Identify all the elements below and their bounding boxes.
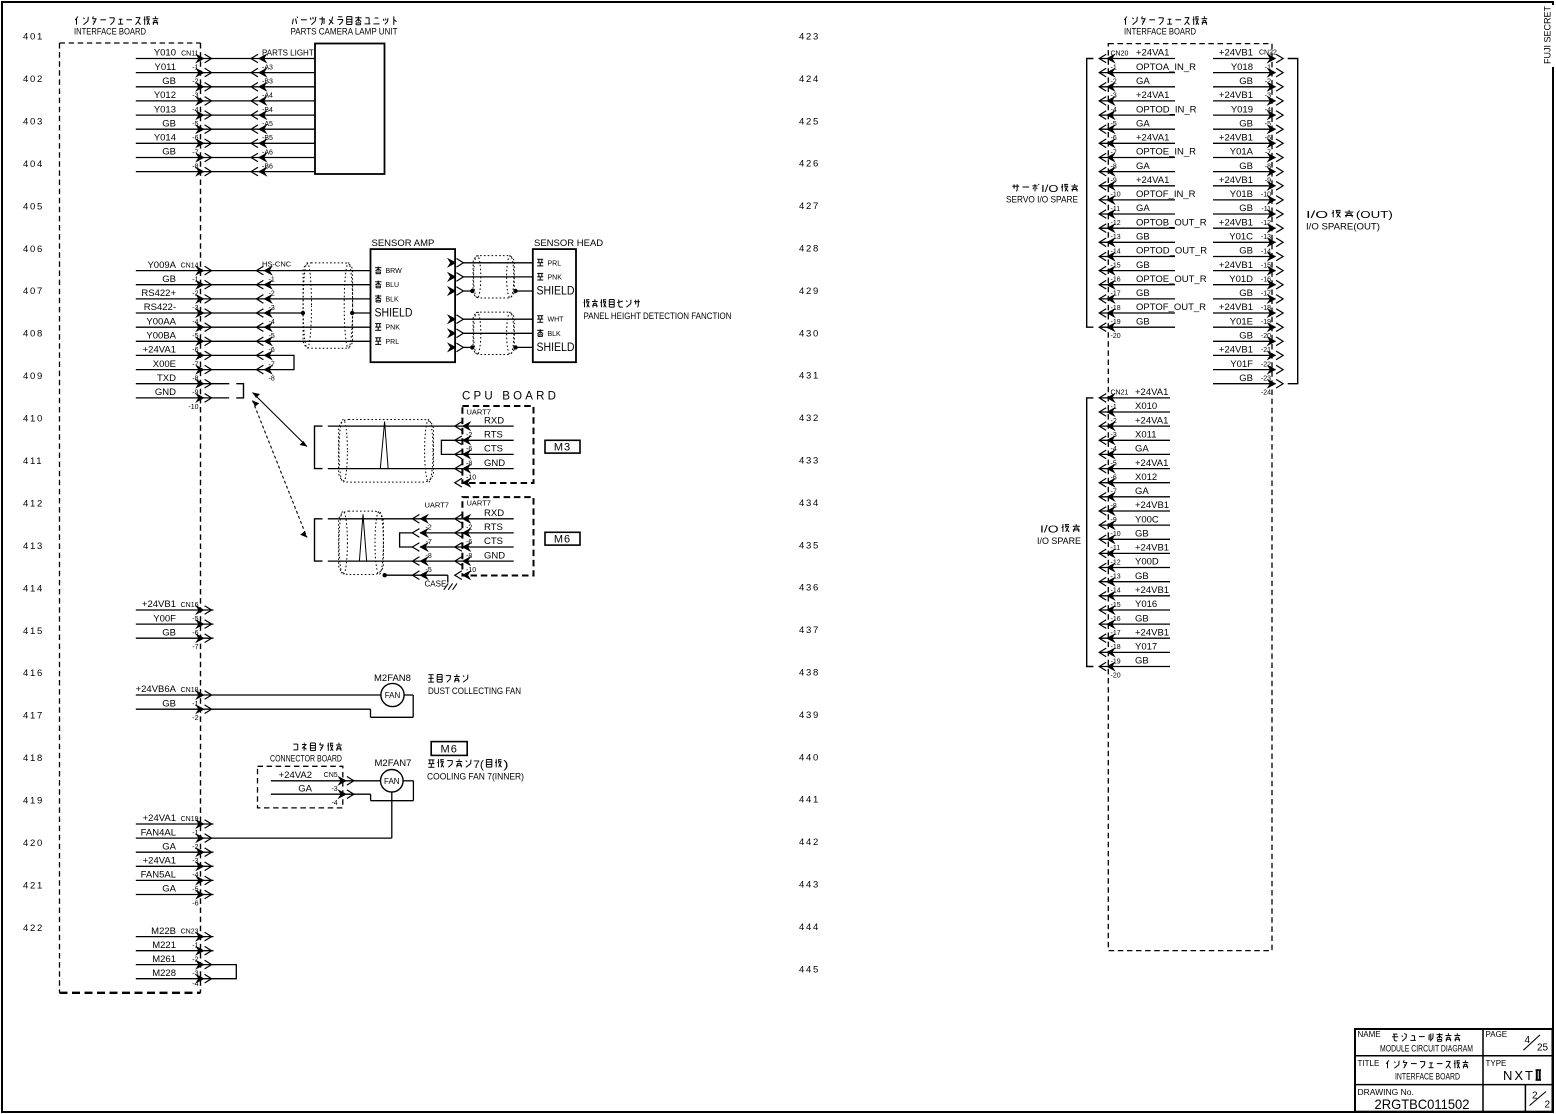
CPU UART7 (M3) pin -8 GND (462, 464, 470, 473)
wire GND CN14 pin -9 (136, 397, 229, 399)
svg-text:RTS: RTS (484, 522, 503, 533)
jumper loop HS-CNC pin-6 to pin-7 (264, 355, 294, 369)
svg-text:-A5: -A5 (262, 121, 273, 128)
CPU UART7 (M3) pin -2 RTS (462, 436, 470, 445)
wire Y01E CN22 pin -19 (1213, 326, 1276, 328)
svg-text:-4: -4 (1265, 107, 1271, 114)
svg-text:Y00C: Y00C (1135, 514, 1159, 525)
sensor head cable shield upper (473, 256, 514, 298)
svg-text:-B4: -B4 (262, 107, 273, 114)
wire GA CN20 pin -8 (1100, 171, 1175, 173)
svg-text:GND: GND (484, 550, 505, 561)
svg-text:RS422+: RS422+ (141, 288, 176, 299)
wire TXD CN14 pin -8 (136, 383, 229, 385)
wire +24VB6A CN18 to fan M2FAN8 (136, 694, 381, 696)
svg-text:M3: M3 (554, 442, 571, 454)
M3 cable shield dashed outline (339, 420, 434, 483)
svg-text:Y016: Y016 (1135, 599, 1157, 610)
svg-text:2RGTBC011502: 2RGTBC011502 (1375, 1096, 1470, 1112)
svg-text:-17: -17 (1111, 291, 1121, 298)
svg-text:-6: -6 (466, 446, 472, 453)
svg-text:HS-CNC: HS-CNC (262, 260, 292, 269)
svg-text:-13: -13 (1261, 234, 1271, 241)
M3 cable shield bracket (315, 426, 323, 469)
svg-text:-10: -10 (1111, 192, 1121, 199)
svg-text:Y017: Y017 (1135, 642, 1157, 653)
wire Y01B CN22 pin -10 (1213, 199, 1276, 201)
svg-text:412: 412 (23, 499, 44, 510)
wire GB CN22 pin -5 (1213, 128, 1276, 130)
svg-text:COOLING FAN 7(INNER): COOLING FAN 7(INNER) (427, 772, 524, 783)
cable shield right core ellipse (344, 263, 352, 348)
sensor amp pin label 桃 PNK (375, 323, 381, 325)
svg-text:436: 436 (799, 583, 820, 594)
svg-text:PARTS CAMERA LAMP UNIT: PARTS CAMERA LAMP UNIT (291, 27, 398, 38)
border frame gap for secret stamp (1545, 5, 1554, 67)
svg-text:-1: -1 (1111, 404, 1117, 411)
svg-text:-3: -3 (1265, 93, 1271, 100)
svg-text:INTERFACE BOARD: INTERFACE BOARD (1124, 27, 1196, 38)
sensor head cable shield lower (473, 312, 514, 354)
M3 cable RXD wire (328, 425, 455, 427)
svg-text:SENSOR HEAD: SENSOR HEAD (534, 238, 603, 249)
svg-text:-13: -13 (1111, 574, 1121, 581)
svg-text:-4: -4 (331, 800, 337, 807)
svg-text:421: 421 (23, 881, 44, 892)
connector board title JP (293, 743, 297, 745)
svg-text:GA: GA (1136, 76, 1150, 87)
svg-text:-4: -4 (192, 319, 198, 326)
svg-text:GB: GB (1136, 288, 1150, 299)
wire GA CN20 pin -5 (1100, 128, 1175, 130)
svg-text:-21: -21 (1261, 347, 1271, 354)
svg-text:GA: GA (1135, 486, 1149, 497)
svg-text:+24VB1: +24VB1 (1219, 175, 1253, 186)
svg-text:-8: -8 (192, 376, 198, 383)
svg-text:-B5: -B5 (262, 135, 273, 142)
wire RS422+ CN14 pin -2 (136, 298, 264, 300)
svg-text:419: 419 (23, 796, 44, 807)
svg-text:PNK: PNK (386, 325, 401, 332)
svg-text:-2: -2 (426, 525, 432, 532)
sensor head pin label 桃 PNK (537, 272, 543, 274)
svg-text:414: 414 (23, 583, 44, 594)
svg-text:-15: -15 (1261, 262, 1271, 269)
svg-text:NAME: NAME (1358, 1030, 1381, 1039)
bracket joining CN14 TXD and GND wires (236, 384, 243, 398)
wire GB CN21 pin -10 (1100, 538, 1170, 540)
svg-text:-2: -2 (269, 291, 275, 298)
svg-text:7(: 7( (473, 759, 484, 771)
wire HS-CNC to sensor amp (茶 BRW) (264, 270, 371, 272)
svg-text:OPTOE_OUT_R: OPTOE_OUT_R (1136, 274, 1207, 285)
svg-text:OPTOA_IN_R: OPTOA_IN_R (1136, 62, 1196, 73)
wire OPTOE_IN_R CN20 pin -7 (1100, 157, 1175, 159)
svg-text:-7: -7 (192, 644, 198, 651)
wire GA CN21 pin -4 (1100, 453, 1170, 455)
svg-text:-4: -4 (192, 872, 198, 879)
svg-text:+24VA1: +24VA1 (143, 345, 176, 356)
svg-text:PARTS LIGHT: PARTS LIGHT (262, 48, 314, 57)
svg-text:GB: GB (1135, 613, 1149, 624)
svg-text:UART7: UART7 (467, 499, 491, 508)
wire +24VB1 CN21 pin -11 (1100, 552, 1170, 554)
M3 jumper RTS-CTS (441, 440, 455, 454)
wire Y010 CN11 pin CN11 to lamp unit PARTS LIGHT (136, 58, 259, 60)
fan M2FAN8 circle (381, 683, 404, 706)
wire Y00BA CN14 pin -5 (136, 340, 264, 342)
svg-text:OPTOD_OUT_R: OPTOD_OUT_R (1136, 246, 1207, 257)
svg-text:WHT: WHT (548, 317, 565, 324)
svg-text:-2: -2 (192, 844, 198, 851)
svg-text:-3: -3 (192, 93, 198, 100)
UART7 cable-side pin -8 (420, 557, 428, 566)
title TITLE JP (1386, 1060, 1389, 1064)
wire M261 CN23 pin -2 (136, 964, 214, 966)
svg-text:Y01C: Y01C (1229, 232, 1253, 243)
svg-text:-3: -3 (1111, 93, 1117, 100)
cable shield (sensor cable) dashed outline (303, 263, 353, 348)
servo I/O spare bracket (CN20) (1087, 59, 1094, 328)
svg-text:-5: -5 (426, 567, 432, 574)
svg-text:2: 2 (1545, 1100, 1551, 1111)
wire +24VA1 CN20 pin -3 (1100, 100, 1175, 102)
UART7 cable-side pin -5 (420, 571, 428, 580)
svg-text:+24VB1: +24VB1 (1219, 217, 1253, 228)
wire -8 CN11 pin -8 to lamp unit -B6 (136, 171, 259, 173)
svg-text:PANEL HEIGHT DETECTION FANCTIO: PANEL HEIGHT DETECTION FANCTION (584, 311, 732, 322)
svg-text:+24VA1: +24VA1 (1136, 90, 1169, 101)
wire GB CN22 pin -14 (1213, 256, 1276, 258)
svg-text:2: 2 (1532, 1091, 1538, 1102)
svg-text:435: 435 (799, 540, 820, 551)
M6 designation box (CPU) (545, 532, 580, 545)
CPU board dashed box (M6) (462, 497, 533, 575)
svg-text:PAGE: PAGE (1486, 1030, 1508, 1039)
svg-text:-3: -3 (192, 971, 198, 978)
wire X012 CN21 pin -6 (1100, 482, 1170, 484)
svg-text:+24VA1: +24VA1 (1136, 48, 1169, 59)
svg-text:GB: GB (1135, 529, 1149, 540)
wire GB CN11 pin -2 to lamp unit -B3 (136, 86, 259, 88)
svg-text:CN5: CN5 (324, 772, 338, 779)
svg-text:MODULE CIRCUIT DIAGRAM: MODULE CIRCUIT DIAGRAM (1380, 1044, 1473, 1055)
svg-text:SERVO I/O SPARE: SERVO I/O SPARE (1006, 195, 1078, 206)
svg-text:CN14: CN14 (181, 262, 199, 269)
svg-text:-5: -5 (1265, 121, 1271, 128)
wire HS-CNC to sensor amp (SHIELD) (264, 312, 303, 314)
wire +24VA1 CN19 pin CN19 (136, 823, 214, 825)
CPU board dashed box (M3) (462, 406, 533, 483)
wire GB CN21 pin -16 (1100, 623, 1170, 625)
wire FAN5AL CN19 pin -4 (136, 879, 214, 881)
wire GB CN18 pin -1 fan return (136, 708, 371, 710)
svg-text:X00E: X00E (153, 359, 176, 370)
svg-text:-1: -1 (192, 64, 198, 71)
svg-text:Y01E: Y01E (1230, 316, 1253, 327)
svg-text:TXD: TXD (157, 373, 176, 384)
svg-text:GA: GA (1136, 161, 1150, 172)
svg-text:CN11: CN11 (181, 50, 198, 57)
svg-text:GB: GB (1239, 161, 1253, 172)
wire +24VB1 CN16 pin CN16 (136, 609, 214, 611)
svg-text:-6: -6 (466, 539, 472, 546)
svg-text:OPTOF_IN_R: OPTOF_IN_R (1136, 189, 1196, 200)
svg-text:-7: -7 (1265, 149, 1271, 156)
svg-text:Y009A: Y009A (147, 260, 176, 271)
CASE shield junction dot (383, 573, 387, 577)
svg-text:+24VB1: +24VB1 (1219, 133, 1253, 144)
svg-text:-6: -6 (1265, 135, 1271, 142)
svg-text:-8: -8 (1111, 163, 1117, 170)
sensor amp pin label 紫 PRL (375, 337, 381, 339)
svg-text:425: 425 (799, 116, 820, 127)
svg-text:GB: GB (1136, 232, 1150, 243)
svg-text:FAN: FAN (385, 691, 401, 700)
svg-text:-4: -4 (192, 981, 198, 988)
svg-text:-9: -9 (1111, 178, 1117, 185)
svg-text:-4: -4 (1111, 107, 1117, 114)
svg-text:-16: -16 (1111, 277, 1121, 284)
interface board (right) dashed box (1108, 44, 1272, 951)
wire +24VB1 CN21 pin -8 (1100, 510, 1170, 512)
panel height sensor note JP (584, 299, 586, 307)
wire GB CN20 pin -19 (1100, 326, 1175, 328)
svg-text:SENSOR AMP: SENSOR AMP (372, 238, 435, 249)
svg-text:I/O SPARE(OUT): I/O SPARE(OUT) (1306, 222, 1380, 233)
sensor head pin label 黒 BLK (537, 329, 543, 331)
svg-text:-9: -9 (1265, 178, 1271, 185)
svg-text:-5: -5 (1111, 121, 1117, 128)
svg-text:25: 25 (1537, 1043, 1549, 1054)
svg-text:-6: -6 (1111, 135, 1117, 142)
svg-text:-8: -8 (1265, 163, 1271, 170)
svg-text:-2: -2 (1111, 418, 1117, 425)
svg-text:M2FAN8: M2FAN8 (374, 673, 411, 684)
M6 twisted-pair twist symbol (359, 514, 366, 561)
svg-text:-5: -5 (269, 333, 275, 340)
svg-text:-1: -1 (192, 701, 198, 708)
svg-text:(OUT): (OUT) (1356, 210, 1393, 221)
svg-text:438: 438 (799, 668, 820, 679)
CPU UART7 (M3) pin -6 CTS (462, 450, 470, 459)
svg-text:FAN4AL: FAN4AL (141, 827, 176, 838)
svg-text:-2: -2 (1265, 79, 1271, 86)
svg-text:-6: -6 (192, 900, 198, 907)
interface board (right) title JP (1124, 17, 1127, 21)
CPU UART7 (M6) pin top RXD (462, 515, 470, 524)
svg-text:I/O SPARE: I/O SPARE (1037, 536, 1081, 547)
sensor amp box (371, 249, 456, 362)
svg-text:-3: -3 (192, 858, 198, 865)
svg-text:442: 442 (799, 837, 820, 848)
svg-text:-6: -6 (192, 135, 198, 142)
svg-text:-7: -7 (192, 149, 198, 156)
wire GB CN22 pin -8 (1213, 171, 1276, 173)
M6 designation box (fan) (431, 742, 467, 756)
svg-text:BRW: BRW (386, 268, 403, 275)
interface board (left) title JP (75, 17, 78, 21)
sensor amp pin label 黒 BLK (375, 295, 381, 297)
sensor head pin label 白 WHT (537, 315, 543, 317)
svg-text:GB: GB (162, 698, 176, 709)
svg-text:-20: -20 (1111, 333, 1121, 340)
svg-text:409: 409 (23, 371, 44, 382)
wire GA CN20 pin -11 (1100, 213, 1175, 215)
svg-text:-2: -2 (1111, 79, 1117, 86)
svg-text:GB: GB (1239, 246, 1253, 257)
svg-text:CPU BOARD: CPU BOARD (462, 391, 559, 403)
wire OPTOF_OUT_R CN20 pin -18 (1100, 312, 1175, 314)
svg-text:-18: -18 (1111, 644, 1121, 651)
svg-text:-6: -6 (192, 630, 198, 637)
svg-text:-9: -9 (192, 390, 198, 397)
svg-text:INTERFACE BOARD: INTERFACE BOARD (74, 27, 146, 38)
svg-text:GB: GB (162, 627, 176, 638)
svg-text:GB: GB (162, 76, 176, 87)
svg-text:Y00BA: Y00BA (146, 331, 176, 342)
wire Y01A CN22 pin -7 (1213, 157, 1276, 159)
svg-text:CTS: CTS (484, 444, 503, 455)
svg-text:430: 430 (799, 328, 820, 339)
svg-text:-B3: -B3 (262, 79, 273, 86)
svg-text:403: 403 (23, 116, 44, 127)
wire sensor amp to sensor head (SHIELD) (448, 287, 456, 296)
svg-text:Y01F: Y01F (1230, 359, 1253, 370)
svg-text:+24VB1: +24VB1 (142, 599, 176, 610)
wire Y019 CN22 pin -4 (1213, 114, 1276, 116)
svg-text:GB: GB (1239, 203, 1253, 214)
svg-text:411: 411 (23, 456, 43, 467)
svg-text:Y00AA: Y00AA (146, 316, 176, 327)
svg-text:+24VA1: +24VA1 (1136, 133, 1169, 144)
svg-text:-19: -19 (1111, 658, 1121, 665)
svg-text:-10: -10 (188, 404, 198, 411)
svg-text:+24VA1: +24VA1 (1135, 387, 1168, 398)
svg-text:-14: -14 (1261, 248, 1271, 255)
svg-text:PRL: PRL (548, 260, 562, 267)
svg-text:PNK: PNK (548, 274, 563, 281)
svg-text:+24VA1: +24VA1 (143, 856, 176, 867)
svg-text:+24VB1: +24VB1 (1135, 543, 1169, 554)
svg-text:CONNECTOR BOARD: CONNECTOR BOARD (270, 754, 342, 765)
svg-text:423: 423 (799, 32, 820, 43)
M6 cable shield bracket (315, 519, 323, 561)
wire GB CN22 pin -17 (1213, 298, 1276, 300)
svg-text:-2: -2 (192, 956, 198, 963)
svg-text:GB: GB (1239, 331, 1253, 342)
wire GB CN22 pin -2 (1213, 86, 1276, 88)
title block row divider 2 (1355, 1084, 1553, 1086)
svg-text:CN18: CN18 (181, 687, 199, 694)
svg-text:GB: GB (1135, 571, 1149, 582)
wire GB CN11 pin -7 to lamp unit -A6 (136, 157, 259, 159)
svg-text:-12: -12 (1111, 220, 1121, 227)
wire HS-CNC to sensor amp (紫 PRL) (264, 340, 371, 342)
svg-text:-3: -3 (269, 305, 275, 312)
M6 cable RXD wire (328, 518, 420, 520)
svg-text:-6: -6 (269, 347, 275, 354)
wire GA CN21 pin -7 (1100, 496, 1170, 498)
svg-text:-12: -12 (1261, 220, 1271, 227)
svg-text:GB: GB (162, 118, 176, 129)
svg-text:406: 406 (23, 244, 44, 255)
svg-text:-3: -3 (192, 305, 198, 312)
wire +24VB1 CN22 pin -15 (1213, 270, 1276, 272)
svg-text:-7: -7 (269, 361, 275, 368)
I/O spare bracket (CN21) (1087, 398, 1094, 667)
wire +24VB1 CN22 pin -21 (1213, 354, 1276, 356)
UART7 cable-side pin top (420, 515, 428, 524)
svg-text:M261: M261 (152, 954, 176, 965)
svg-text:I/O: I/O (1040, 525, 1059, 536)
wire X011 CN21 pin -3 (1100, 439, 1170, 441)
svg-text:-24: -24 (1261, 390, 1271, 397)
wire Y01F CN22 pin -22 (1213, 369, 1276, 371)
title block column divider (1482, 1029, 1484, 1112)
wire GB CN21 pin -19 (1100, 666, 1170, 668)
svg-text:FAN: FAN (384, 777, 400, 786)
svg-text:-10: -10 (1261, 192, 1271, 199)
wire FAN4AL CN19 pin -1 (136, 837, 392, 839)
svg-text:445: 445 (799, 964, 820, 975)
svg-text:-2: -2 (466, 525, 472, 532)
svg-text:GB: GB (1239, 118, 1253, 129)
svg-text:-14: -14 (1111, 248, 1121, 255)
svg-text:-8: -8 (466, 553, 472, 560)
svg-text:+24VB1: +24VB1 (1135, 627, 1169, 638)
svg-text:417: 417 (23, 711, 44, 722)
svg-text:TYPE: TYPE (1486, 1059, 1507, 1068)
servo I/O spare label JP (1012, 185, 1019, 187)
fan M2FAN7 circle (381, 770, 404, 793)
fan M2FAN7 lead to FAN4AL (391, 792, 393, 838)
wire HS-CNC to sensor amp (桃 PNK) (264, 326, 371, 328)
svg-text:-5: -5 (1111, 460, 1117, 467)
svg-text:-17: -17 (1111, 630, 1121, 637)
svg-text:-7: -7 (426, 539, 432, 546)
svg-text:-23: -23 (1261, 376, 1271, 383)
wire GB CN14 pin -1 (136, 284, 264, 286)
wire +24VA1 CN20 pin -9 (1100, 185, 1175, 187)
svg-text:422: 422 (23, 923, 44, 934)
wire GB CN20 pin -13 (1100, 241, 1175, 243)
svg-text:GB: GB (162, 274, 176, 285)
UART7 cable-side pin -7 (420, 543, 428, 552)
svg-text:-1: -1 (269, 277, 275, 284)
wire +24VA1 CN21 pin -5 (1100, 468, 1170, 470)
M3 twisted-pair twist symbol (380, 422, 388, 470)
svg-text:-15: -15 (1111, 262, 1121, 269)
wire GB CN20 pin -17 (1100, 298, 1175, 300)
wire GB CN16 pin -6 (136, 637, 214, 639)
svg-text:426: 426 (799, 159, 820, 170)
wire M221 CN23 pin -1 (136, 950, 214, 952)
wire Y011 CN11 pin -1 to lamp unit -A3 (136, 72, 259, 74)
wire Y00AA CN14 pin -4 (136, 326, 264, 328)
interface board (left) connector border (dashed) (200, 43, 202, 993)
svg-text:428: 428 (799, 244, 820, 255)
wire M228 CN23 pin -3 (136, 978, 214, 980)
UART7 cable-side pin -2 (420, 529, 428, 538)
svg-text:439: 439 (799, 710, 820, 721)
svg-text:-2: -2 (466, 432, 472, 439)
svg-text:GB: GB (1239, 373, 1253, 384)
wire OPTOA_IN_R CN20 pin -1 (1100, 72, 1175, 74)
svg-text:GB: GB (162, 147, 176, 158)
svg-text:BLK: BLK (548, 331, 562, 338)
M3 designation box (545, 440, 580, 453)
